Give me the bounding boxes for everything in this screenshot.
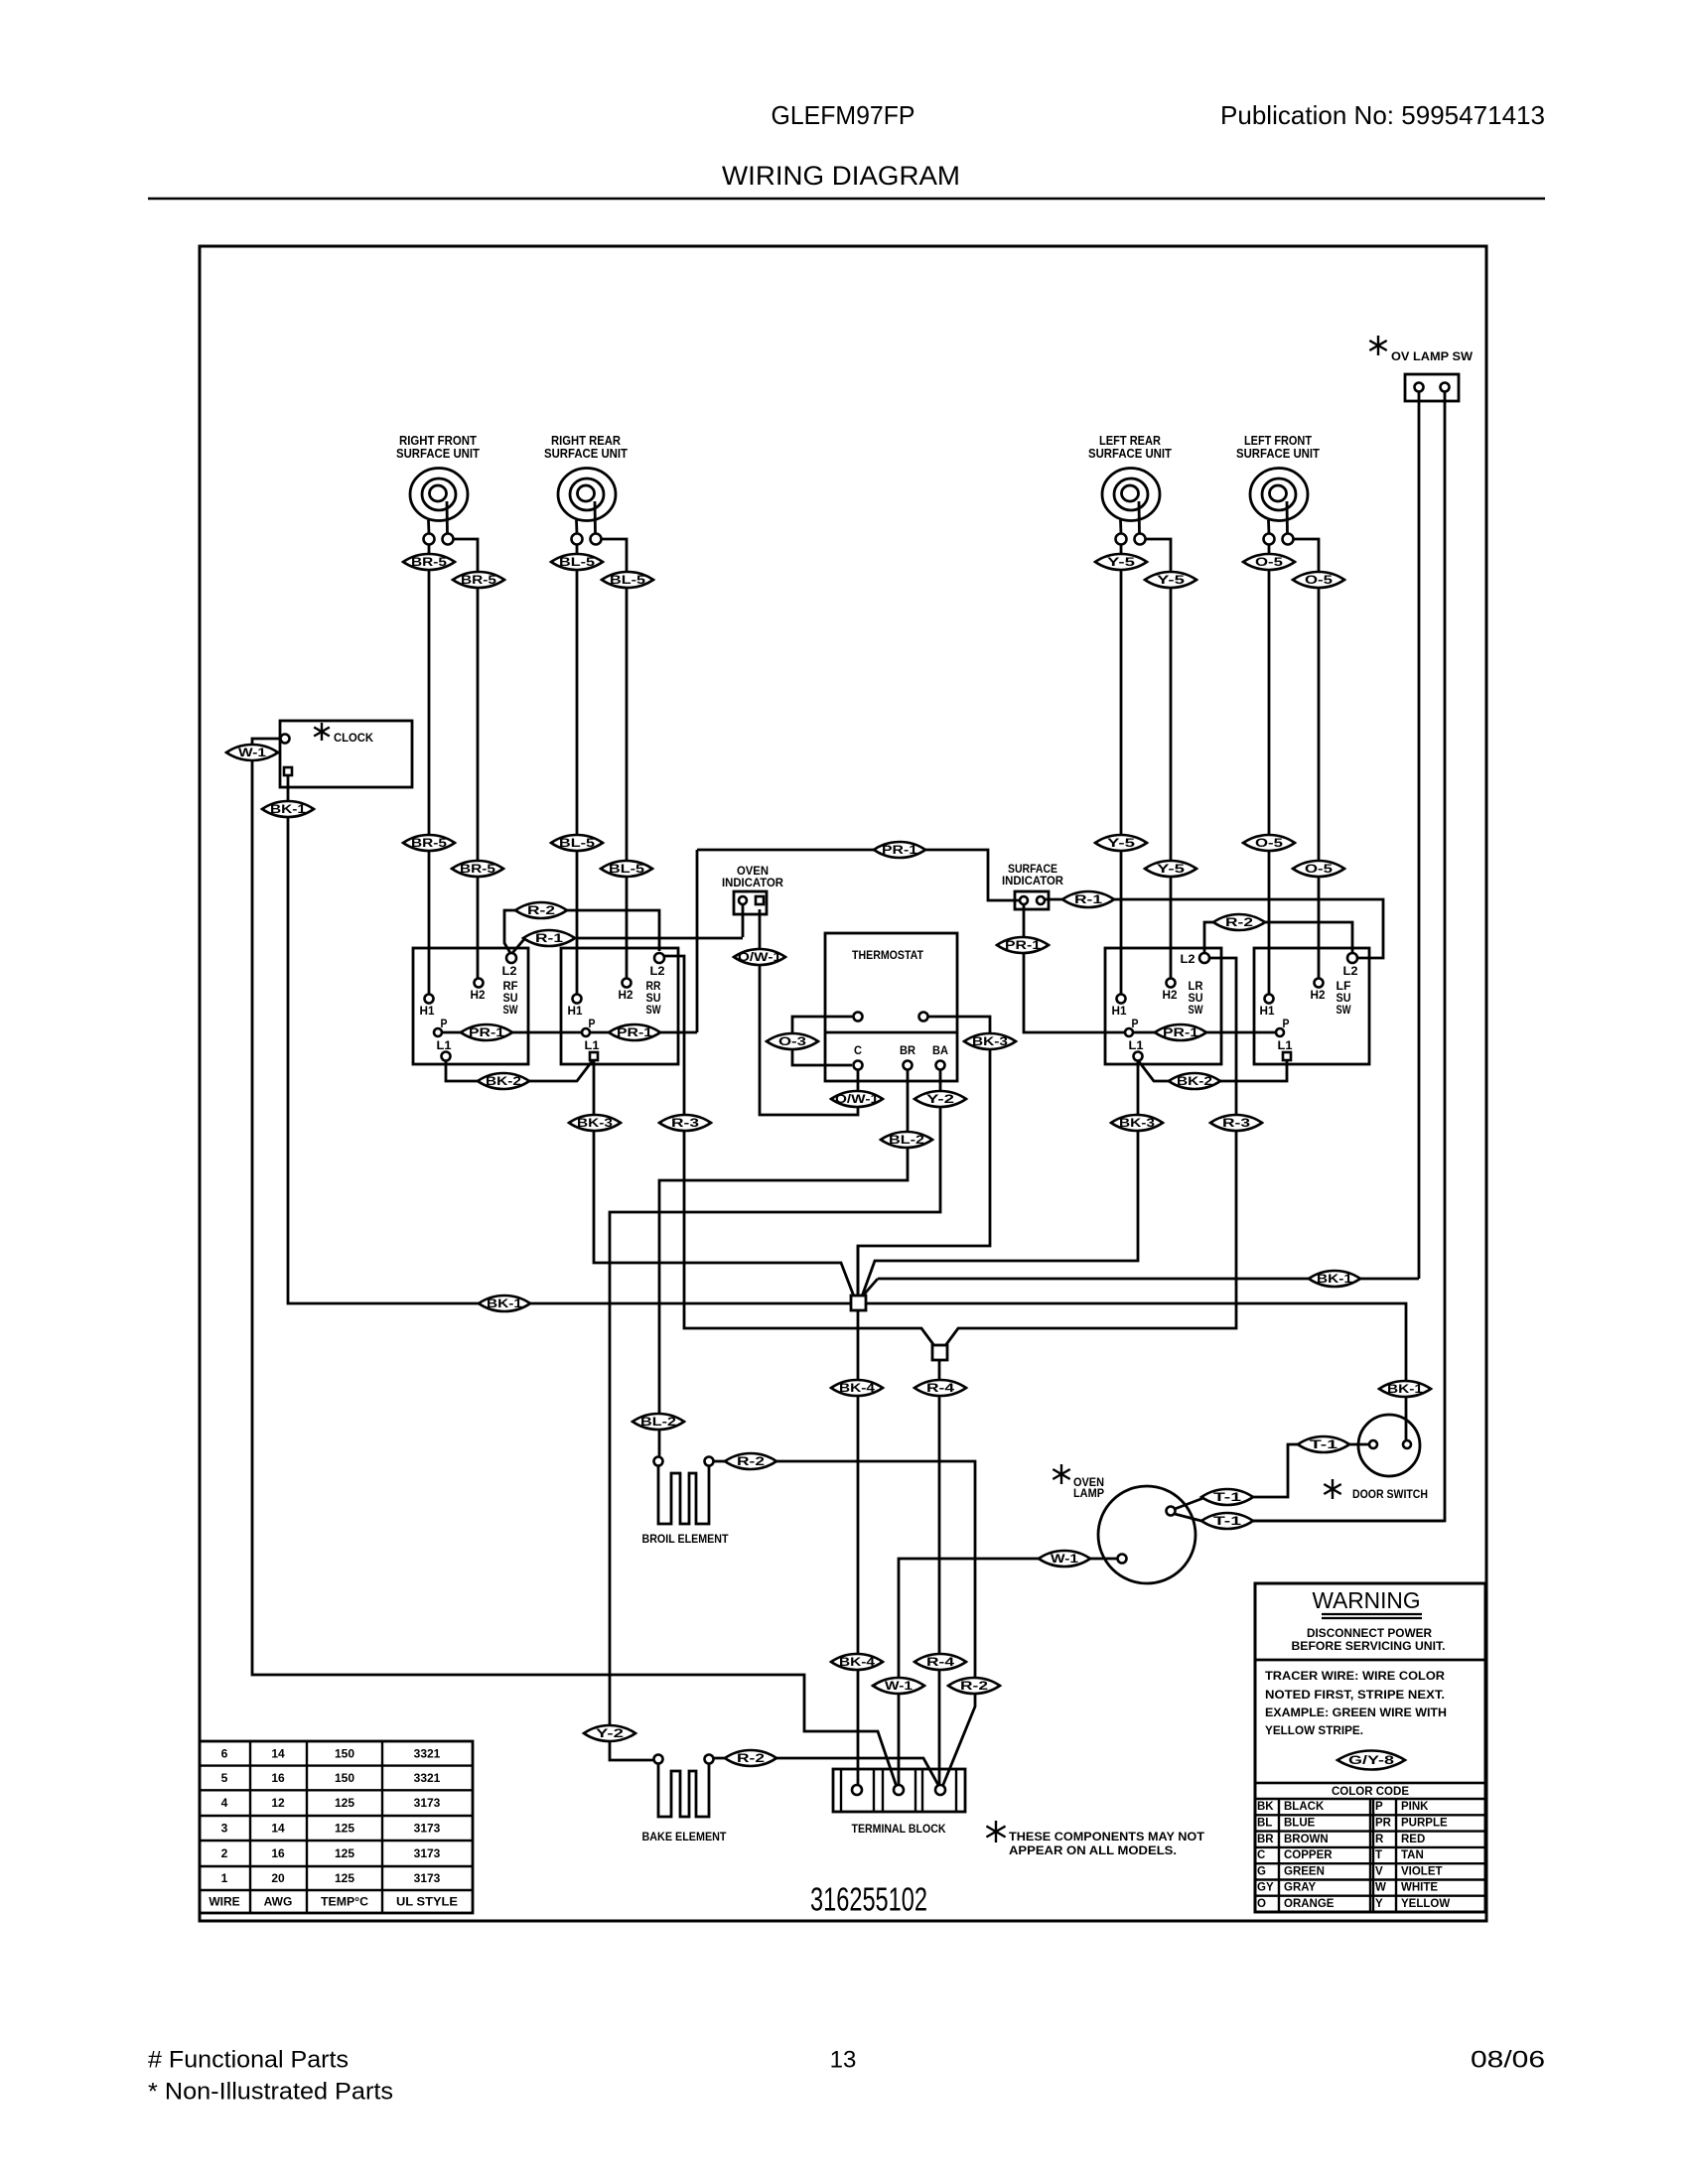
- svg-text:TEMP°C: TEMP°C: [321, 1895, 368, 1909]
- svg-text:BR-5: BR-5: [411, 836, 447, 850]
- svg-text:SW: SW: [503, 1003, 519, 1017]
- svg-text:R-4: R-4: [926, 1381, 954, 1395]
- svg-text:RIGHT FRONT: RIGHT FRONT: [399, 434, 477, 448]
- svg-text:V: V: [1375, 1865, 1383, 1877]
- oval label R-2 right: [1213, 914, 1265, 930]
- surface unit LEFT REAR coil: [1102, 469, 1160, 535]
- oval label W-1 oven lamp: [1039, 1551, 1090, 1567]
- svg-text:H2: H2: [471, 988, 486, 1002]
- svg-text:16: 16: [271, 1846, 285, 1860]
- svg-text:BR-5: BR-5: [411, 555, 447, 569]
- svg-text:BK: BK: [1257, 1801, 1274, 1813]
- svg-text:13: 13: [830, 2047, 857, 2074]
- oval label BK-3 below RR: [569, 1115, 621, 1131]
- oval label T-1 door switch: [1298, 1436, 1349, 1452]
- svg-text:PR-1: PR-1: [1163, 1025, 1198, 1039]
- svg-text:L1: L1: [1129, 1038, 1144, 1052]
- svg-text:T-1: T-1: [1213, 1490, 1242, 1504]
- svg-text:BL-5: BL-5: [559, 836, 595, 850]
- svg-text:PR-1: PR-1: [469, 1025, 504, 1039]
- terminal block TB1: [833, 1769, 965, 1812]
- wire R-2 LR L2 to LF L2: [1204, 922, 1352, 953]
- lamp DS3 oven lamp circle: [1098, 1486, 1196, 1583]
- note asterisk: [986, 1821, 1005, 1843]
- svg-text:O-5: O-5: [1305, 862, 1333, 876]
- wire from LEFT REAR right terminal: [1146, 539, 1172, 979]
- svg-text:R: R: [1375, 1834, 1384, 1845]
- oval label BR-5 wire: [403, 835, 455, 851]
- svg-text:L2: L2: [1181, 952, 1196, 966]
- svg-text:O-5: O-5: [1305, 573, 1333, 587]
- svg-text:BK-1: BK-1: [487, 1297, 522, 1310]
- oval label BL-2 thermostat: [881, 1132, 932, 1148]
- svg-text:EXAMPLE: GREEN WIRE WITH: EXAMPLE: GREEN WIRE WITH: [1265, 1707, 1447, 1719]
- svg-text:P: P: [589, 1017, 596, 1030]
- svg-text:150: 150: [335, 1771, 354, 1785]
- svg-text:12: 12: [271, 1796, 285, 1810]
- svg-text:Y-5: Y-5: [1157, 573, 1186, 587]
- wire LR L2 to R-3 to junction 2: [944, 958, 1236, 1347]
- svg-text:GRAY: GRAY: [1284, 1882, 1316, 1894]
- svg-text:20: 20: [271, 1871, 285, 1885]
- oval label R-4 upper: [914, 1380, 966, 1396]
- svg-text:T: T: [1375, 1849, 1382, 1861]
- svg-text:14: 14: [271, 1746, 285, 1760]
- svg-text:C: C: [854, 1043, 862, 1057]
- oval label PR-1 in RF: [461, 1024, 512, 1040]
- surface unit RIGHT FRONT terminals: [424, 534, 435, 545]
- switch S2 RR SU SW box: [561, 948, 678, 1064]
- svg-text:6: 6: [221, 1746, 228, 1760]
- svg-text:L2: L2: [1343, 964, 1358, 978]
- oval label T-1 lower: [1201, 1513, 1253, 1529]
- svg-text:T-1: T-1: [1310, 1437, 1338, 1451]
- wire thermostat right contact to BK-3 junction riser: [858, 1017, 990, 1296]
- oval label O/W-1 upper: [734, 949, 785, 965]
- svg-text:BL-2: BL-2: [889, 1133, 924, 1147]
- svg-text:H2: H2: [1311, 988, 1326, 1002]
- svg-text:R-1: R-1: [535, 931, 563, 945]
- svg-text:R-3: R-3: [1222, 1116, 1250, 1130]
- svg-text:SURFACE UNIT: SURFACE UNIT: [1088, 447, 1172, 461]
- svg-text:H2: H2: [1163, 988, 1178, 1002]
- oval label BK-1 clock: [262, 801, 314, 817]
- svg-text:3: 3: [221, 1822, 228, 1836]
- svg-text:AWG: AWG: [264, 1895, 293, 1909]
- svg-text:UL STYLE: UL STYLE: [396, 1895, 458, 1909]
- wire RR L1 down to junction: [594, 1060, 854, 1297]
- svg-text:BK-4: BK-4: [839, 1381, 875, 1395]
- svg-text:TRACER WIRE: WIRE COLOR: TRACER WIRE: WIRE COLOR: [1265, 1671, 1446, 1683]
- wire P row RF-RR: [438, 1031, 697, 1034]
- surface unit RIGHT FRONT coil: [410, 469, 468, 535]
- thermostat terminals: [854, 1013, 863, 1022]
- wire junction to door switch BK-1: [866, 1303, 1406, 1439]
- svg-text:O/W-1: O/W-1: [835, 1092, 879, 1106]
- oven indicator terminals: [739, 896, 747, 904]
- switch S3 LR SU SW box: [1105, 948, 1221, 1064]
- svg-text:ORANGE: ORANGE: [1284, 1898, 1335, 1910]
- thermostat TH1 box: [825, 933, 957, 1081]
- switch S1 RF SU SW box: [413, 948, 528, 1064]
- svg-text:YELLOW: YELLOW: [1401, 1898, 1450, 1910]
- wire PR-1 surface indicator to P row: [1024, 904, 1276, 1032]
- svg-text:BR-5: BR-5: [460, 862, 495, 876]
- warning box: [1255, 1583, 1485, 1912]
- svg-text:R-2: R-2: [1225, 915, 1253, 929]
- oval label Y-2 thermostat: [914, 1091, 966, 1107]
- svg-text:5: 5: [221, 1771, 228, 1785]
- wire BK-2 RF L1 to RR L1: [446, 1060, 593, 1081]
- junction J1 black: [857, 1246, 860, 1303]
- svg-text:Y-2: Y-2: [926, 1092, 955, 1106]
- svg-text:O/W-1: O/W-1: [738, 950, 781, 964]
- wire thermostat left loop with O-3: [792, 1017, 853, 1065]
- wire PR-1 top run to surface indicator: [697, 850, 1019, 900]
- svg-text:P: P: [1375, 1801, 1383, 1813]
- svg-text:BK-3: BK-3: [1119, 1116, 1155, 1130]
- thermostat internal divider: [825, 1031, 957, 1034]
- svg-text:BL-5: BL-5: [559, 555, 595, 569]
- svg-text:COPPER: COPPER: [1284, 1849, 1333, 1861]
- svg-text:INDICATOR: INDICATOR: [722, 876, 783, 889]
- svg-text:2: 2: [221, 1846, 228, 1860]
- svg-text:PR-1: PR-1: [882, 843, 917, 857]
- svg-text:14: 14: [271, 1822, 285, 1836]
- clock asterisk: [314, 723, 330, 741]
- svg-text:R-2: R-2: [737, 1751, 765, 1765]
- oval label Y-2 bake: [584, 1725, 635, 1741]
- svg-text:BK-1: BK-1: [1317, 1272, 1352, 1286]
- wire from RIGHT FRONT right terminal: [454, 539, 479, 979]
- oval label R-1 left: [523, 930, 575, 946]
- title rule: [148, 198, 1545, 201]
- heating element bake: [658, 1763, 709, 1817]
- svg-text:GREEN: GREEN: [1284, 1865, 1325, 1877]
- svg-text:WIRING DIAGRAM: WIRING DIAGRAM: [722, 161, 960, 191]
- wire from LEFT FRONT left terminal: [1268, 545, 1271, 995]
- svg-text:O: O: [1257, 1898, 1266, 1910]
- svg-text:R-2: R-2: [527, 903, 555, 917]
- svg-text:SURFACE UNIT: SURFACE UNIT: [1236, 447, 1320, 461]
- svg-text:P: P: [1283, 1017, 1290, 1030]
- svg-text:GY: GY: [1257, 1882, 1274, 1894]
- svg-text:R-2: R-2: [960, 1679, 988, 1693]
- switch S5 door switch circle: [1358, 1415, 1420, 1476]
- indicator DS2 surface indicator box: [1015, 891, 1049, 909]
- svg-text:THESE COMPONENTS MAY NOT: THESE COMPONENTS MAY NOT: [1009, 1830, 1205, 1843]
- switch LF terminals and labels: [1347, 953, 1357, 963]
- svg-text:O-3: O-3: [778, 1034, 806, 1048]
- oval label PR-1 top: [874, 842, 925, 858]
- svg-text:BAKE ELEMENT: BAKE ELEMENT: [642, 1830, 728, 1843]
- svg-text:W-1: W-1: [885, 1679, 913, 1693]
- surface unit RIGHT REAR terminals: [572, 534, 583, 545]
- svg-text:BROWN: BROWN: [1284, 1834, 1329, 1845]
- color code table: [1255, 1783, 1485, 1912]
- svg-text:SW: SW: [1336, 1003, 1352, 1017]
- wire from RIGHT FRONT left terminal: [428, 545, 431, 995]
- oval label BR-5 wire: [452, 861, 503, 877]
- svg-text:H1: H1: [568, 1004, 583, 1018]
- oval label PR-1 surface indicator: [997, 937, 1049, 953]
- svg-text:BEFORE SERVICING UNIT.: BEFORE SERVICING UNIT.: [1292, 1641, 1446, 1653]
- surface unit RIGHT REAR coil: [558, 469, 616, 535]
- svg-text:O-5: O-5: [1255, 836, 1283, 850]
- wire BK-1 from clock to junction: [288, 775, 851, 1303]
- svg-text:PINK: PINK: [1401, 1801, 1429, 1813]
- oval label BK-4 lower: [831, 1654, 883, 1670]
- oval label Y-5 wire: [1095, 835, 1147, 851]
- heating element broil: [658, 1465, 709, 1524]
- oval label O/W-1 lower: [831, 1091, 883, 1107]
- svg-text:C: C: [1257, 1849, 1265, 1861]
- oval label PR-1 in LR: [1155, 1024, 1206, 1040]
- svg-text:08/06: 08/06: [1471, 2047, 1545, 2074]
- oval label R-2 bake: [725, 1750, 776, 1766]
- indicator DS1 oven indicator box: [734, 891, 767, 914]
- svg-text:BLUE: BLUE: [1284, 1817, 1316, 1829]
- oval label R-2 broil: [725, 1453, 776, 1469]
- svg-text:BK-4: BK-4: [839, 1655, 875, 1669]
- svg-text:3173: 3173: [414, 1871, 441, 1885]
- svg-text:Y-5: Y-5: [1107, 836, 1136, 850]
- wire oven lamp switch left lead BK-1 down: [1418, 392, 1421, 1279]
- svg-text:# Functional Parts: # Functional Parts: [148, 2047, 349, 2074]
- svg-text:DISCONNECT POWER: DISCONNECT POWER: [1307, 1628, 1433, 1640]
- wire from RIGHT REAR right terminal: [602, 539, 628, 979]
- svg-text:R-3: R-3: [671, 1116, 699, 1130]
- svg-text:PURPLE: PURPLE: [1401, 1817, 1448, 1829]
- svg-text:RED: RED: [1401, 1834, 1425, 1845]
- svg-text:THERMOSTAT: THERMOSTAT: [852, 948, 924, 962]
- oval label G/Y-8 example: [1337, 1751, 1405, 1770]
- svg-text:3173: 3173: [414, 1846, 441, 1860]
- wire oven lamp switch right lead T-1 down: [1201, 392, 1445, 1521]
- wire from LEFT FRONT right terminal: [1294, 539, 1320, 979]
- oval label R-3 below LR: [1210, 1115, 1262, 1131]
- oven lamp switch terminals: [1415, 383, 1424, 392]
- wire R-2 bake to terminal block: [713, 1758, 939, 1787]
- wire thermostat C to oven indicator O/W-1: [760, 909, 858, 1115]
- oval label BK-1 door switch: [1379, 1381, 1431, 1397]
- svg-text:H1: H1: [420, 1004, 435, 1018]
- terminal block terminals: [852, 1785, 862, 1795]
- svg-text:125: 125: [335, 1871, 354, 1885]
- oval label Y-5 wire: [1145, 861, 1196, 877]
- svg-text:YELLOW STRIPE.: YELLOW STRIPE.: [1265, 1725, 1363, 1737]
- svg-text:BR: BR: [900, 1043, 915, 1057]
- oval label Y-5 wire: [1145, 572, 1196, 588]
- surface unit LEFT FRONT terminals: [1264, 534, 1275, 545]
- svg-text:TAN: TAN: [1401, 1849, 1424, 1861]
- svg-text:WIRE: WIRE: [209, 1895, 239, 1909]
- svg-text:125: 125: [335, 1846, 354, 1860]
- oval label T-1 bend: [1201, 1489, 1253, 1505]
- svg-text:VIOLET: VIOLET: [1401, 1865, 1443, 1877]
- oven lamp terminals: [1167, 1507, 1176, 1516]
- svg-text:BROIL ELEMENT: BROIL ELEMENT: [642, 1532, 730, 1546]
- wire from RIGHT REAR left terminal: [576, 545, 579, 995]
- svg-text:APPEAR ON ALL MODELS.: APPEAR ON ALL MODELS.: [1009, 1843, 1177, 1857]
- svg-text:125: 125: [335, 1822, 354, 1836]
- svg-text:L1: L1: [585, 1038, 600, 1052]
- svg-text:BR-5: BR-5: [461, 573, 496, 587]
- svg-text:BK-3: BK-3: [972, 1034, 1008, 1048]
- svg-text:OV LAMP SW: OV LAMP SW: [1391, 349, 1474, 363]
- wire LR L1 down to junction: [862, 1060, 1138, 1297]
- oval label PR-1 in RR: [609, 1024, 660, 1040]
- svg-text:GLEFM97FP: GLEFM97FP: [772, 100, 915, 130]
- svg-text:3321: 3321: [414, 1746, 441, 1760]
- oval label O-5 wire: [1293, 572, 1344, 588]
- svg-text:H1: H1: [1112, 1004, 1127, 1018]
- svg-text:1: 1: [221, 1871, 228, 1885]
- svg-text:16: 16: [271, 1771, 285, 1785]
- svg-text:H2: H2: [619, 988, 633, 1002]
- svg-text:BK-3: BK-3: [577, 1116, 613, 1130]
- svg-text:INDICATOR: INDICATOR: [1002, 874, 1063, 887]
- svg-text:T-1: T-1: [1213, 1514, 1242, 1528]
- oval label BK-4 upper: [831, 1380, 883, 1396]
- svg-text:O-5: O-5: [1255, 555, 1283, 569]
- svg-text:BL-5: BL-5: [610, 573, 645, 587]
- oven lamp asterisk: [1053, 1464, 1069, 1484]
- switch S4 LF SU SW box: [1254, 948, 1369, 1064]
- oval label BK-3 thermostat: [964, 1033, 1016, 1049]
- svg-text:WARNING: WARNING: [1313, 1587, 1421, 1613]
- svg-text:G: G: [1257, 1865, 1266, 1877]
- wire junction2 down to terminal block: [938, 1360, 941, 1786]
- main diagram border: [200, 246, 1486, 1921]
- svg-text:LEFT REAR: LEFT REAR: [1099, 434, 1161, 448]
- surface unit LEFT REAR terminals: [1116, 534, 1127, 545]
- svg-text:Y-5: Y-5: [1157, 862, 1186, 876]
- wire R-1 surface indicator to LF L2: [1045, 899, 1383, 958]
- wire W-1 oven lamp to terminal block: [899, 1559, 1117, 1786]
- svg-text:316255102: 316255102: [810, 1881, 927, 1918]
- wire BK-1 junction to ov lamp switch: [864, 1279, 1419, 1295]
- oval label W-1 terminal block: [873, 1678, 924, 1694]
- oval label BL-5 wire: [602, 572, 653, 588]
- switch LR terminals and labels: [1199, 953, 1209, 963]
- svg-text:BK-1: BK-1: [1387, 1382, 1423, 1396]
- svg-text:PR: PR: [1375, 1817, 1392, 1829]
- wire gauge table: [200, 1741, 473, 1913]
- oval label W-1 clock: [226, 745, 278, 760]
- svg-text:3173: 3173: [414, 1796, 441, 1810]
- svg-text:TERMINAL BLOCK: TERMINAL BLOCK: [852, 1822, 946, 1836]
- svg-text:BK-1: BK-1: [270, 802, 306, 816]
- wire thermostat BR to broil element BL-2: [659, 1070, 908, 1456]
- svg-text:BLACK: BLACK: [1284, 1801, 1325, 1813]
- svg-text:L1: L1: [1278, 1038, 1293, 1052]
- svg-text:R-1: R-1: [1074, 892, 1102, 906]
- oval label BK-3 below LR: [1111, 1115, 1163, 1131]
- oval label BL-5 wire: [601, 861, 652, 877]
- svg-text:SURFACE UNIT: SURFACE UNIT: [544, 447, 628, 461]
- oval label BK-1 to lamp switch: [1309, 1271, 1360, 1287]
- wire R-2 RF L2 to RR L2: [504, 910, 659, 953]
- svg-text:SW: SW: [1189, 1003, 1204, 1017]
- oval label BK-2 left: [478, 1073, 529, 1089]
- svg-text:* Non-Illustrated Parts: * Non-Illustrated Parts: [148, 2079, 393, 2106]
- svg-text:SW: SW: [646, 1003, 662, 1017]
- warning divider: [1255, 1659, 1485, 1662]
- svg-text:PR-1: PR-1: [617, 1025, 652, 1039]
- svg-text:W-1: W-1: [238, 746, 266, 759]
- oval label R-2 broil lower: [948, 1678, 1000, 1694]
- oven lamp switch asterisk: [1369, 336, 1386, 355]
- wire T-1 oven lamp to door switch: [1175, 1444, 1369, 1509]
- svg-text:4: 4: [221, 1796, 228, 1810]
- oval label R-4 lower: [914, 1654, 966, 1670]
- oval label BR-5 wire: [453, 572, 504, 588]
- svg-text:BK-2: BK-2: [1177, 1074, 1212, 1088]
- wire T-1 oven lamp to lamp switch right lead: [1175, 1514, 1444, 1521]
- switch RR terminals and labels: [654, 953, 664, 963]
- oval label BK-2 right: [1169, 1073, 1220, 1089]
- svg-text:Y-2: Y-2: [596, 1726, 625, 1740]
- oval label O-3: [767, 1033, 818, 1049]
- oval label BL-5 wire: [551, 554, 603, 570]
- oval label BL-2 broil: [633, 1414, 684, 1430]
- clock terminals: [281, 735, 290, 744]
- clock box: [280, 721, 412, 787]
- oval label O-5 wire: [1293, 861, 1344, 877]
- svg-text:125: 125: [335, 1796, 354, 1810]
- svg-text:L2: L2: [502, 964, 517, 978]
- svg-text:150: 150: [335, 1746, 354, 1760]
- svg-text:R-2: R-2: [737, 1454, 765, 1468]
- svg-text:BL-5: BL-5: [609, 862, 644, 876]
- door switch asterisk: [1324, 1479, 1340, 1499]
- wire R-1 RF L2 to oven indicator net: [512, 850, 743, 1032]
- svg-text:PR-1: PR-1: [1005, 938, 1041, 952]
- surface indicator terminals: [1020, 896, 1028, 904]
- svg-text:COLOR CODE: COLOR CODE: [1332, 1784, 1409, 1798]
- svg-text:R-4: R-4: [926, 1655, 954, 1669]
- switch SW1 OV LAMP SW box: [1405, 374, 1459, 401]
- svg-text:P: P: [441, 1017, 448, 1030]
- wire thermostat BA to bake element Y-2: [610, 1070, 940, 1760]
- door switch terminals: [1369, 1440, 1377, 1448]
- svg-text:BR: BR: [1257, 1834, 1274, 1845]
- svg-text:WHITE: WHITE: [1401, 1882, 1438, 1894]
- svg-text:L1: L1: [437, 1038, 452, 1052]
- svg-text:W-1: W-1: [1051, 1552, 1078, 1566]
- svg-text:L2: L2: [650, 964, 665, 978]
- surface unit LEFT FRONT coil: [1250, 469, 1308, 535]
- junction J2 red: [932, 1345, 947, 1360]
- wire RR L2 to R-3 to junction 2: [663, 956, 935, 1347]
- wire W-1 from clock to terminal block: [252, 739, 897, 1787]
- oval label O-5 wire: [1243, 554, 1295, 570]
- svg-text:NOTED FIRST, STRIPE NEXT.: NOTED FIRST, STRIPE NEXT.: [1265, 1690, 1445, 1702]
- svg-text:3321: 3321: [414, 1771, 441, 1785]
- oval label BL-5 wire: [551, 835, 603, 851]
- wire BK-2 LR L1 to LF L1: [1138, 1059, 1287, 1081]
- svg-text:LEFT FRONT: LEFT FRONT: [1244, 434, 1312, 448]
- oval label O-5 wire: [1243, 835, 1295, 851]
- svg-text:Y-5: Y-5: [1107, 555, 1136, 569]
- svg-text:G/Y-8: G/Y-8: [1348, 1753, 1394, 1767]
- switch RF terminals and labels: [506, 953, 516, 963]
- svg-text:LAMP: LAMP: [1073, 1486, 1104, 1500]
- oval label R-2 left: [515, 902, 567, 918]
- wire junction1 down to terminal block: [857, 1310, 860, 1786]
- wire R-2 broil to terminal block: [713, 1461, 975, 1787]
